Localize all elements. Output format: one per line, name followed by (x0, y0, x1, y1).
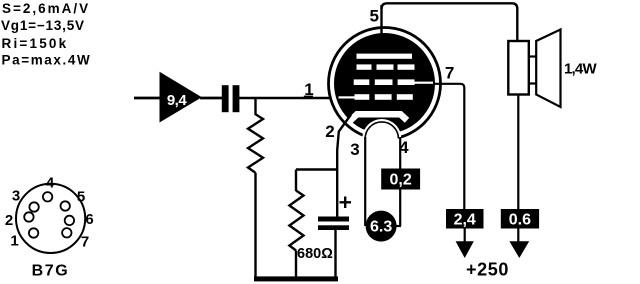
pin 5 lead (380, 5, 382, 34)
svg-text:2: 2 (5, 212, 13, 229)
capacitor C1 plate right (233, 85, 240, 112)
svg-text:Ri=150k: Ri=150k (2, 36, 69, 51)
speaker nub lower (529, 82, 537, 84)
wire pin7 to 2,4 box (434, 84, 464, 210)
svg-text:4: 4 (399, 138, 409, 157)
heater mask (365, 138, 399, 146)
wire 0.6 box to arrow (517, 229, 519, 245)
anode plate bar (357, 54, 413, 59)
socket pin 1 hole (29, 228, 38, 237)
wire pin5 to speaker top (382, 3, 518, 41)
svg-text:2,4: 2,4 (454, 212, 476, 229)
capacitor C2 plate bottom (318, 225, 349, 230)
svg-text:Vg1=−13,5V: Vg1=−13,5V (1, 18, 85, 33)
svg-text:0.6: 0.6 (509, 212, 531, 229)
tick 6.3 to pin4 wire (395, 225, 401, 227)
speaker driver box (508, 41, 529, 95)
ground rail (254, 276, 338, 281)
heater filament dome (365, 122, 398, 139)
capacitor C1 plate left (222, 85, 229, 112)
svg-text:5: 5 (369, 6, 378, 25)
wire R1 to ground rail (254, 173, 256, 278)
svg-text:2: 2 (325, 122, 334, 141)
resistor R2 680 zigzag (289, 191, 303, 251)
wire C2 to ground rail (334, 230, 336, 279)
svg-text:Pa=max.4W: Pa=max.4W (2, 53, 92, 68)
label pin 1 base bar (304, 96, 313, 99)
cathode (349, 114, 408, 122)
socket pin 2 hole (24, 212, 33, 221)
wire input left (134, 97, 161, 100)
input source triangle (160, 72, 202, 123)
svg-text:7: 7 (445, 63, 454, 82)
resistor R2 680 lead top (295, 170, 297, 192)
box 0,2 (381, 169, 420, 190)
svg-text:9,4: 9,4 (167, 92, 188, 109)
svg-text:6: 6 (85, 211, 93, 228)
socket B7G circle (16, 184, 85, 253)
svg-text:4: 4 (46, 174, 55, 191)
svg-text:+250: +250 (466, 259, 509, 279)
wire 2,4 box to arrow (464, 229, 466, 245)
box 0.6 (501, 209, 539, 229)
socket pin 4 hole (43, 192, 52, 201)
svg-text:7: 7 (81, 234, 89, 251)
wire capacitor to tube grid (239, 97, 337, 100)
svg-text:S=2,6mA/V: S=2,6mA/V (2, 1, 90, 16)
arrow down left (456, 241, 474, 258)
pin 3 lead (364, 137, 366, 226)
wire speaker to 0.6 box (517, 95, 519, 211)
grid g1 dashes (339, 94, 413, 100)
capacitor C2 plate top (318, 217, 349, 222)
grid g3 dashes (357, 64, 415, 69)
tube U1 inner disc (334, 33, 435, 134)
svg-text:3: 3 (12, 188, 20, 205)
pin 4 lead (399, 137, 401, 226)
svg-text:0,2: 0,2 (389, 172, 411, 189)
svg-text:3: 3 (350, 140, 359, 159)
heater supply circle 6.3 (366, 211, 397, 242)
wire R2 to ground rail (295, 251, 297, 279)
heater dome halo (362, 119, 401, 138)
box 2,4 (446, 209, 484, 229)
tube U1 envelope (329, 28, 441, 140)
socket pin 5 hole (60, 201, 69, 210)
svg-text:5: 5 (77, 189, 85, 206)
capacitor C2 plus sign (340, 197, 352, 209)
speaker nub upper (529, 55, 537, 57)
pin 2 lead (337, 115, 351, 218)
svg-text:1,4W: 1,4W (564, 60, 597, 77)
svg-text:B7G: B7G (32, 263, 70, 280)
grid g2 dashes (354, 79, 433, 85)
resistor R1 grid leak (248, 99, 263, 173)
wire cathode junction (296, 168, 338, 170)
socket pin 3 hole (29, 202, 38, 211)
wire triangle to capacitor (200, 97, 223, 100)
svg-text:1: 1 (10, 233, 18, 250)
socket pin 7 hole (62, 228, 71, 237)
svg-text:680Ω: 680Ω (297, 246, 333, 262)
arrow down right (509, 241, 529, 258)
speaker horn (536, 30, 560, 108)
svg-text:6.3: 6.3 (370, 219, 392, 236)
socket pin 6 hole (65, 216, 74, 225)
